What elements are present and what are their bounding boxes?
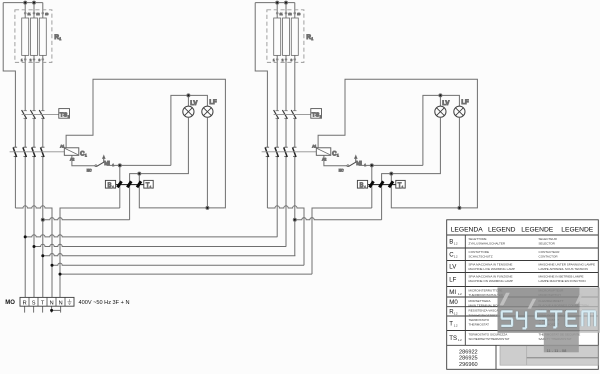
svg-text:MASCHINE IN BETRIEB LAMPE: MASCHINE IN BETRIEB LAMPE	[539, 274, 584, 278]
svg-text:MASCHINE UNTER SPANNUNG LAMPE: MASCHINE UNTER SPANNUNG LAMPE	[539, 262, 596, 266]
svg-text:SELECTOR: SELECTOR	[539, 242, 556, 246]
svg-text:THERMOSTAT: THERMOSTAT	[469, 323, 490, 327]
svg-text:R: R	[23, 300, 27, 306]
svg-text:N: N	[59, 300, 63, 306]
svg-text:MI: MI	[449, 289, 456, 296]
svg-text:296960: 296960	[459, 362, 478, 368]
svg-text:CONTACTEUR: CONTACTEUR	[539, 250, 561, 254]
svg-text:1.2: 1.2	[454, 242, 458, 246]
svg-text:SCHALTSCHUTZ: SCHALTSCHUTZ	[469, 255, 493, 259]
svg-text:LF: LF	[449, 277, 456, 284]
svg-text:LEGENDA: LEGENDA	[451, 226, 484, 233]
svg-text:1.2: 1.2	[454, 254, 458, 258]
svg-text:LAMPE MACHINE EN FONCTION: LAMPE MACHINE EN FONCTION	[539, 279, 586, 283]
svg-text:LV: LV	[449, 264, 457, 271]
svg-text:MACHINE LIVE WARMING LAMP: MACHINE LIVE WARMING LAMP	[469, 267, 515, 271]
svg-text:SPIA MACCHINA IN FUNZIONE: SPIA MACCHINA IN FUNZIONE	[469, 274, 513, 278]
svg-text:T: T	[41, 300, 45, 306]
svg-text:LEGEND: LEGEND	[488, 226, 516, 233]
svg-text:B: B	[449, 239, 453, 246]
svg-text:MORSETTIERA: MORSETTIERA	[469, 299, 492, 303]
svg-text:TS: TS	[449, 335, 457, 342]
svg-text:MO: MO	[5, 300, 15, 306]
svg-text:11 - 11 - 08: 11 - 11 - 08	[547, 348, 568, 353]
svg-text:286925: 286925	[459, 356, 478, 362]
svg-text:MACHINE ON WARMING LAMP: MACHINE ON WARMING LAMP	[469, 279, 513, 283]
svg-text:SELECTEUR: SELECTEUR	[539, 237, 558, 241]
svg-text:MICROINTERRUTTORE: MICROINTERRUTTORE	[469, 288, 503, 292]
svg-text:N: N	[50, 300, 54, 306]
svg-text:1.2: 1.2	[454, 323, 458, 327]
svg-text:CONTACTOR: CONTACTOR	[539, 255, 559, 259]
svg-text:LEGENDE: LEGENDE	[561, 226, 594, 233]
svg-text:1.2: 1.2	[458, 338, 462, 342]
svg-text:400V ~50 Hz 3F + N: 400V ~50 Hz 3F + N	[79, 300, 130, 306]
svg-text:ZYKLUSWAHLSCHALTER: ZYKLUSWAHLSCHALTER	[469, 242, 506, 246]
svg-text:LAMPE APPAREIL SOUS TENSION: LAMPE APPAREIL SOUS TENSION	[539, 267, 588, 271]
svg-text:TANKHEIZKOERPER: TANKHEIZKOERPER	[469, 313, 500, 317]
svg-text:1.2: 1.2	[458, 292, 462, 296]
svg-text:286922: 286922	[459, 349, 478, 355]
svg-text:SPIA MACCHINA IN TENSIONE: SPIA MACCHINA IN TENSIONE	[469, 262, 513, 266]
svg-text:TERMOSTATO SICUREZZA: TERMOSTATO SICUREZZA	[469, 332, 509, 336]
svg-text:LEGENDE: LEGENDE	[521, 226, 554, 233]
svg-text:CONTATTORE: CONTATTORE	[469, 250, 489, 254]
svg-text:M0: M0	[449, 299, 458, 306]
svg-text:S: S	[32, 300, 36, 306]
svg-text:1.2: 1.2	[454, 312, 458, 316]
svg-text:T: T	[449, 320, 453, 327]
svg-text:SELETTORE: SELETTORE	[469, 237, 487, 241]
svg-text:SICHERHEITSTHERMOSTAT: SICHERHEITSTHERMOSTAT	[469, 337, 510, 341]
svg-text:RESISTENZA VASCA: RESISTENZA VASCA	[469, 309, 500, 313]
svg-text:TERMOSTATO: TERMOSTATO	[469, 318, 490, 322]
